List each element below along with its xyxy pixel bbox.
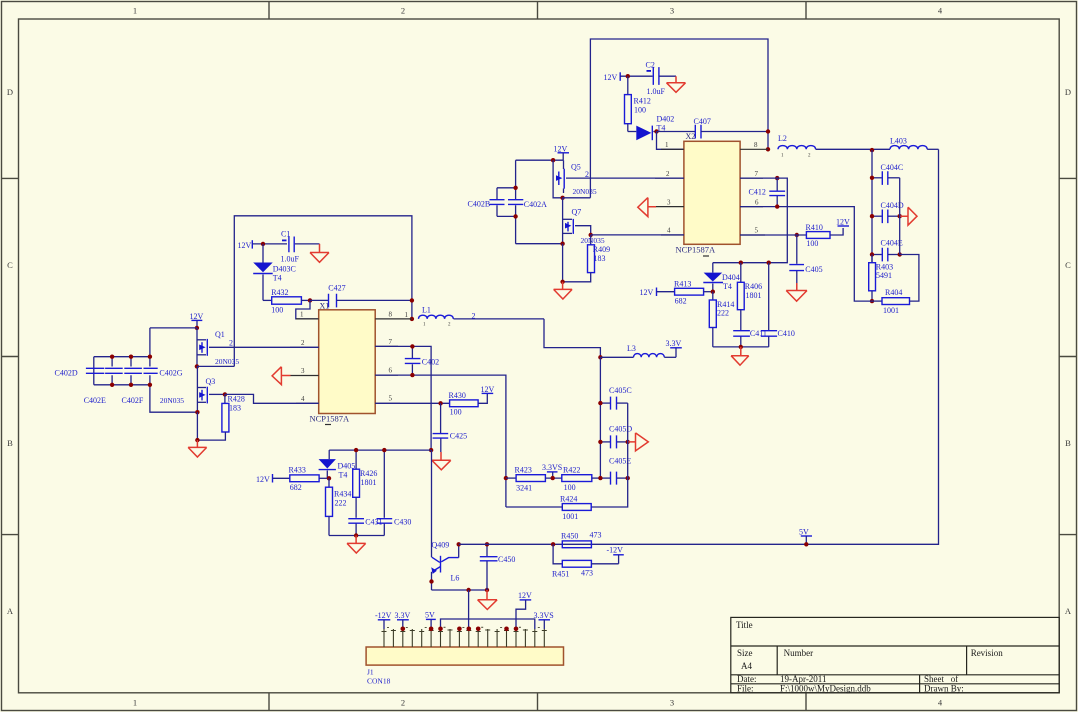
- connector pins: [384, 629, 544, 647]
- diode D404 T4: [703, 263, 739, 292]
- resistor R413 682: [674, 279, 713, 305]
- svg-text:2: 2: [666, 170, 670, 178]
- svg-text:20N035: 20N035: [581, 236, 605, 245]
- svg-text:B: B: [7, 438, 13, 448]
- no-ERC arrow C404D: [900, 207, 917, 225]
- svg-text:L403: L403: [890, 137, 907, 146]
- svg-text:100: 100: [564, 483, 576, 492]
- svg-text:L2: L2: [778, 134, 787, 143]
- ground (C425): [432, 452, 451, 470]
- svg-text:Date:: Date:: [737, 674, 757, 684]
- resistor R450 473: [561, 531, 602, 548]
- svg-text:Q1: Q1: [215, 330, 225, 339]
- svg-text:R406: R406: [745, 282, 762, 291]
- svg-text:NCP1587A: NCP1587A: [676, 245, 717, 255]
- node dot pin8/L1: [410, 317, 414, 321]
- wire SW to Q409: [431, 450, 433, 557]
- node dot C404C left: [870, 176, 874, 180]
- svg-text:1: 1: [133, 6, 137, 16]
- resistor R430 100: [375, 391, 487, 416]
- svg-text:R413: R413: [674, 279, 691, 288]
- connector J1 CON18 body: [366, 647, 563, 686]
- zone labels left: [7, 87, 14, 616]
- svg-text:R422: R422: [563, 465, 580, 474]
- svg-text:3.3VS: 3.3VS: [534, 611, 554, 620]
- resistor R423 3241: [506, 465, 562, 492]
- resistor R410 100: [740, 223, 843, 248]
- node dot C405D left: [598, 440, 602, 444]
- svg-text:NCP1587A: NCP1587A: [310, 414, 351, 424]
- capacitor bank C402D/E/F/G: [55, 328, 198, 412]
- IC1 pin numbers: [300, 311, 409, 404]
- svg-text:8: 8: [754, 141, 758, 149]
- svg-text:100: 100: [634, 106, 646, 115]
- transistor Q1 20N035: [197, 328, 319, 367]
- zone ticks bottom: [269, 693, 806, 711]
- svg-text:2: 2: [401, 6, 405, 16]
- wire cap bank bottom to Q7: [516, 243, 563, 245]
- power port 12V (Q5): [554, 144, 570, 160]
- svg-text:CON18: CON18: [367, 677, 391, 686]
- node dot SW corner: [429, 448, 433, 452]
- svg-text:C404C: C404C: [881, 163, 904, 172]
- svg-text:7: 7: [389, 338, 393, 346]
- svg-text:12V: 12V: [256, 475, 270, 484]
- svg-text:5: 5: [389, 395, 393, 403]
- node dot bottom rail: [354, 533, 358, 537]
- svg-text:Q7: Q7: [572, 207, 582, 216]
- IC1 pin stubs: [290, 319, 412, 403]
- svg-text:D403C: D403C: [273, 265, 296, 274]
- svg-text:R412: R412: [634, 96, 651, 105]
- power port 12V (J1): [516, 591, 532, 629]
- node dot pin6/C402: [410, 373, 414, 377]
- svg-text:6: 6: [755, 198, 759, 206]
- svg-text:C402G: C402G: [159, 368, 182, 377]
- svg-text:5: 5: [755, 227, 759, 235]
- svg-text:R410: R410: [806, 223, 823, 232]
- svg-text:473: 473: [581, 568, 593, 577]
- node dot pin5/C405: [795, 233, 799, 237]
- capacitor C431: [348, 517, 382, 535]
- svg-text:C405D: C405D: [609, 425, 632, 434]
- node dot Q409 emitter: [429, 579, 433, 583]
- svg-text:1001: 1001: [883, 306, 899, 315]
- svg-text:5491: 5491: [876, 271, 892, 280]
- power port 12V (C2): [604, 72, 653, 82]
- svg-text:222: 222: [717, 309, 729, 318]
- svg-text:12V: 12V: [640, 288, 654, 297]
- capacitor C404C: [872, 163, 903, 185]
- svg-text:100: 100: [806, 239, 818, 248]
- node dot C430 top: [382, 448, 386, 452]
- resistor R409 183: [563, 235, 611, 282]
- capacitor C402A: [508, 160, 547, 244]
- title block: [731, 617, 1059, 693]
- svg-text:1: 1: [665, 141, 669, 149]
- no-ERC arrow pin3 IC1: [272, 367, 290, 385]
- resistor R404 1001: [872, 255, 919, 316]
- wire 5V long net: [459, 149, 939, 544]
- node dot L3 junction: [598, 355, 602, 359]
- svg-text:R430: R430: [449, 391, 466, 400]
- zone ticks top: [269, 2, 806, 20]
- svg-text:J1: J1: [367, 668, 374, 677]
- svg-text:Size: Size: [737, 648, 753, 658]
- svg-text:12V: 12V: [481, 385, 495, 394]
- diode D402 T4: [628, 115, 674, 141]
- capacitor C404D: [872, 201, 904, 223]
- svg-text:Revision: Revision: [971, 648, 1004, 658]
- node dot C404D left: [870, 214, 874, 218]
- svg-text:C412: C412: [749, 187, 766, 196]
- wire pin7 to pin17: [441, 619, 535, 629]
- diode D403C T4: [253, 244, 296, 301]
- svg-text:R433: R433: [289, 466, 306, 475]
- svg-text:R414: R414: [717, 300, 734, 309]
- svg-text:L1: L1: [422, 306, 431, 315]
- node dot pin5/C425: [438, 401, 442, 405]
- node dot L2/L403/C404: [870, 148, 874, 152]
- no-ERC arrow pin3 IC2: [638, 198, 656, 217]
- svg-text:R432: R432: [271, 288, 288, 297]
- svg-text:L6: L6: [451, 574, 460, 583]
- svg-text:473: 473: [590, 531, 602, 540]
- svg-text:8: 8: [389, 311, 393, 319]
- svg-text:D: D: [7, 87, 13, 97]
- node dot C1/12V: [261, 242, 265, 246]
- svg-text:12V: 12V: [604, 73, 618, 82]
- node dot C405C left: [598, 401, 602, 405]
- capacitor C410: [761, 263, 795, 347]
- svg-text:C405C: C405C: [609, 386, 632, 395]
- svg-text:A4: A4: [741, 661, 752, 671]
- svg-text:X2: X2: [686, 132, 696, 141]
- connector node dots: [401, 627, 406, 632]
- svg-text:File:: File:: [737, 684, 754, 694]
- node dot C2/12V: [626, 74, 630, 78]
- svg-text:1: 1: [133, 698, 137, 708]
- svg-text:1801: 1801: [746, 291, 762, 300]
- svg-text:R409: R409: [593, 245, 610, 254]
- node dot Q3 source: [195, 410, 199, 414]
- C404 chain right bracket: [899, 178, 901, 255]
- resistor R426 1801: [353, 450, 378, 518]
- capacitor C402B: [468, 188, 516, 217]
- resistor R433 682: [289, 466, 330, 493]
- svg-text:100: 100: [450, 407, 462, 416]
- svg-text:7: 7: [755, 170, 759, 178]
- node dot rail/C450: [485, 588, 489, 592]
- node dot C404E left: [870, 252, 874, 256]
- capacitor C430: [377, 450, 412, 535]
- svg-text:T4: T4: [273, 274, 282, 283]
- svg-text:3.3VS: 3.3VS: [542, 463, 562, 472]
- wire pin7 net: [375, 346, 431, 450]
- svg-text:R424: R424: [560, 494, 577, 503]
- ground (D404 rail): [731, 347, 749, 365]
- wire pin6 net: [375, 375, 506, 507]
- svg-text:2: 2: [301, 339, 305, 347]
- svg-text:20N035: 20N035: [215, 357, 239, 366]
- power port 12V (R433): [256, 474, 290, 484]
- capacitor C412: [749, 178, 786, 207]
- svg-text:3: 3: [670, 6, 674, 16]
- power port 12V (R410): [836, 217, 850, 226]
- svg-text:C427: C427: [328, 284, 345, 293]
- power port -12V (J1): [375, 611, 392, 629]
- svg-text:3.3V: 3.3V: [395, 611, 411, 620]
- svg-text:L3: L3: [627, 344, 636, 353]
- node dot Q7 source: [560, 242, 564, 246]
- power port 12V (C1): [238, 240, 288, 250]
- node dot R426 top: [354, 448, 358, 452]
- svg-text:C402E: C402E: [84, 396, 106, 405]
- ground (C1): [310, 244, 329, 262]
- svg-text:C425: C425: [450, 432, 467, 441]
- svg-text:R434: R434: [334, 489, 351, 498]
- svg-text:19-Apr-2011: 19-Apr-2011: [780, 674, 826, 684]
- svg-text:C: C: [7, 260, 13, 270]
- svg-text:A: A: [1065, 606, 1072, 616]
- power port 5V (net): [799, 527, 812, 544]
- node dot D405/R433/R434: [327, 476, 331, 480]
- svg-text:12V: 12V: [238, 241, 252, 250]
- wire Q1 source to loop: [197, 365, 234, 367]
- transistor Q409: [431, 541, 459, 591]
- svg-text:Number: Number: [784, 648, 814, 658]
- svg-text:4: 4: [667, 227, 671, 235]
- wire Q3 gate to pin4: [225, 394, 319, 403]
- svg-text:Q3: Q3: [206, 377, 216, 386]
- resistor R414 222: [709, 292, 734, 347]
- C404 chain left vertical: [871, 150, 873, 263]
- svg-text:12V: 12V: [554, 144, 568, 153]
- C405 chain right bracket: [591, 403, 628, 507]
- zone ticks right: [1059, 178, 1076, 534]
- node dot R450 left: [551, 542, 555, 546]
- svg-text:183: 183: [594, 254, 606, 263]
- svg-text:F:\1000w\MyDesign.ddb: F:\1000w\MyDesign.ddb: [780, 684, 871, 694]
- node dot D404/R413/R414: [711, 290, 715, 294]
- svg-text:2: 2: [401, 698, 405, 708]
- node dot D404 rail: [739, 345, 743, 349]
- svg-text:A: A: [7, 606, 14, 616]
- svg-text:1.0uF: 1.0uF: [281, 255, 300, 264]
- ground (Q7/R409): [554, 282, 573, 299]
- svg-text:C450: C450: [498, 555, 515, 564]
- op-amp U? IC2 NCP1587A: [676, 141, 741, 256]
- svg-text:Q5: Q5: [571, 162, 581, 171]
- ground (R434 rail): [347, 536, 366, 554]
- op-amp U? IC1 NCP1587A: [310, 310, 376, 425]
- node dot C410 top: [767, 261, 771, 265]
- svg-text:1: 1: [405, 311, 409, 319]
- svg-text:D404: D404: [722, 273, 740, 282]
- ground (C2): [667, 76, 686, 92]
- svg-text:D: D: [1065, 87, 1071, 97]
- wire D405 top rail: [329, 449, 431, 451]
- resistor R432 100: [263, 288, 310, 315]
- bootstrap loop wire (left IC): [234, 216, 412, 367]
- svg-text:3.3V: 3.3V: [666, 339, 682, 348]
- svg-text:R428: R428: [228, 394, 245, 403]
- wire cap bank to Q5: [516, 159, 564, 161]
- capacitor C427: [310, 284, 412, 308]
- svg-text:Sheet of: Sheet of: [924, 674, 958, 684]
- node dot C405D right: [626, 440, 630, 444]
- svg-text:R426: R426: [360, 469, 377, 478]
- svg-text:183: 183: [229, 404, 241, 413]
- inductor L3: [600, 344, 676, 357]
- svg-text:C430: C430: [394, 517, 411, 526]
- capacitor C405E: [600, 457, 631, 485]
- ground (rail): [478, 590, 498, 610]
- inductor L1: [419, 306, 545, 328]
- svg-text:T4: T4: [723, 282, 732, 291]
- resistor R424 1001: [506, 494, 591, 521]
- capacitor C405: [789, 235, 822, 291]
- capacitor C405D: [600, 425, 632, 449]
- svg-text:R451: R451: [552, 570, 569, 579]
- capacitor C404E: [872, 239, 903, 262]
- node dot pin8/L2: [766, 147, 770, 151]
- node dot Q3 gate/R428: [223, 392, 227, 396]
- svg-text:C402A: C402A: [524, 200, 547, 209]
- ground (C405): [786, 283, 807, 301]
- svg-text:R423: R423: [515, 465, 532, 474]
- capacitor C402: [405, 346, 439, 375]
- resistor R451 473: [552, 544, 619, 578]
- svg-text:6: 6: [389, 367, 393, 375]
- svg-text:B: B: [1065, 438, 1071, 448]
- power port 12V (R430): [481, 385, 495, 394]
- ground (Q3/R428): [188, 440, 207, 457]
- IC2 pin stubs: [655, 149, 768, 235]
- svg-text:20N035: 20N035: [573, 187, 597, 196]
- wire gnd rail: [432, 589, 488, 591]
- wire pin7 net (right): [713, 178, 788, 263]
- resistor R428 183: [197, 394, 244, 440]
- svg-text:C402F: C402F: [122, 396, 144, 405]
- bootstrap loop wire (right IC): [590, 39, 768, 198]
- zone ticks left: [2, 178, 19, 534]
- power port 3.3V: [666, 339, 682, 357]
- node dots cap bank: [110, 355, 114, 359]
- svg-text:D402: D402: [657, 115, 675, 124]
- power port 3.3V (J1): [395, 611, 411, 629]
- resistor R434 222: [326, 478, 352, 535]
- resistor R422 100: [562, 465, 601, 492]
- svg-text:T4: T4: [339, 470, 348, 479]
- svg-text:3: 3: [301, 367, 305, 375]
- node dot Q7 gate/R409: [589, 233, 593, 237]
- node dot C404E right: [898, 252, 902, 256]
- svg-text:12V: 12V: [518, 591, 532, 600]
- node dot R432/C427: [308, 298, 312, 302]
- inductor L403: [890, 137, 939, 150]
- power port 3.3VS (J1): [534, 611, 554, 629]
- node dot R403/R404: [870, 299, 874, 303]
- wire D404 bottom rail: [713, 346, 769, 348]
- wire pin4: [591, 234, 684, 236]
- capacitor C1 1.0uF: [281, 229, 320, 263]
- node dot R423 tap: [504, 476, 508, 480]
- svg-text:Drawn By:: Drawn By:: [924, 684, 964, 694]
- svg-text:12V: 12V: [190, 312, 204, 321]
- node dot Q1 source: [195, 364, 199, 368]
- svg-text:-12V: -12V: [607, 545, 624, 554]
- svg-text:C405: C405: [805, 265, 822, 274]
- node dot Q1 drain: [195, 326, 199, 330]
- node dot gnd Q7: [560, 280, 564, 284]
- wire pin1 zigzag: [296, 300, 319, 319]
- capacitor C450: [480, 544, 516, 590]
- svg-text:222: 222: [335, 498, 347, 507]
- svg-text:C: C: [1065, 260, 1071, 270]
- svg-text:20N035: 20N035: [160, 396, 184, 405]
- capacitor C405C: [600, 386, 631, 410]
- node dot C405E right: [626, 476, 630, 480]
- svg-text:C402B: C402B: [468, 199, 491, 208]
- svg-text:Title: Title: [736, 620, 753, 630]
- svg-text:5V: 5V: [799, 527, 809, 536]
- node dot rail/pin10: [466, 588, 470, 592]
- zone labels right: [1065, 87, 1072, 616]
- svg-text:5V: 5V: [425, 611, 435, 620]
- svg-text:C410: C410: [778, 329, 795, 338]
- svg-text:3: 3: [670, 698, 674, 708]
- wire Q7 source down: [562, 244, 564, 282]
- node dots C402A/B: [513, 186, 517, 190]
- node dot Q5 drain: [551, 158, 555, 162]
- power port 12V (Q1): [190, 312, 204, 328]
- C405 chain left vertical: [599, 357, 601, 478]
- svg-text:R404: R404: [885, 288, 902, 297]
- svg-text:1001: 1001: [562, 512, 578, 521]
- node dot C450 top: [485, 542, 489, 546]
- svg-text:2: 2: [585, 170, 589, 179]
- svg-text:12V: 12V: [836, 217, 850, 226]
- svg-text:Q409: Q409: [432, 541, 450, 550]
- diode D405 T4: [319, 450, 356, 479]
- zone labels top: [133, 6, 943, 16]
- wire Q5 source to loop: [563, 197, 591, 199]
- node dot 3.3VS: [551, 476, 555, 480]
- svg-text:1: 1: [300, 311, 304, 319]
- node dot pin6/C412: [775, 204, 779, 208]
- node dot pin7/C412: [775, 176, 779, 180]
- zone labels bottom: [133, 698, 943, 708]
- power port 12V (R413): [640, 288, 675, 297]
- capacitor C2 1.0uF: [646, 61, 677, 97]
- node dot Q5 source: [560, 196, 564, 200]
- svg-text:2: 2: [229, 338, 233, 347]
- node dot gnd Q3: [195, 438, 199, 442]
- wire D405 bottom rail: [329, 535, 384, 537]
- power port 3.3VS: [542, 463, 562, 478]
- svg-text:R450: R450: [561, 532, 578, 541]
- transistor Q3 20N035: [160, 366, 225, 412]
- capacitor C411: [733, 329, 767, 347]
- wire cap bank top to Q1: [150, 327, 197, 329]
- node dot loop/C427: [410, 298, 414, 302]
- inductor L2: [778, 134, 890, 159]
- svg-text:682: 682: [290, 483, 302, 492]
- svg-text:4: 4: [301, 395, 305, 403]
- svg-text:C407: C407: [694, 117, 711, 126]
- svg-text:682: 682: [675, 297, 687, 306]
